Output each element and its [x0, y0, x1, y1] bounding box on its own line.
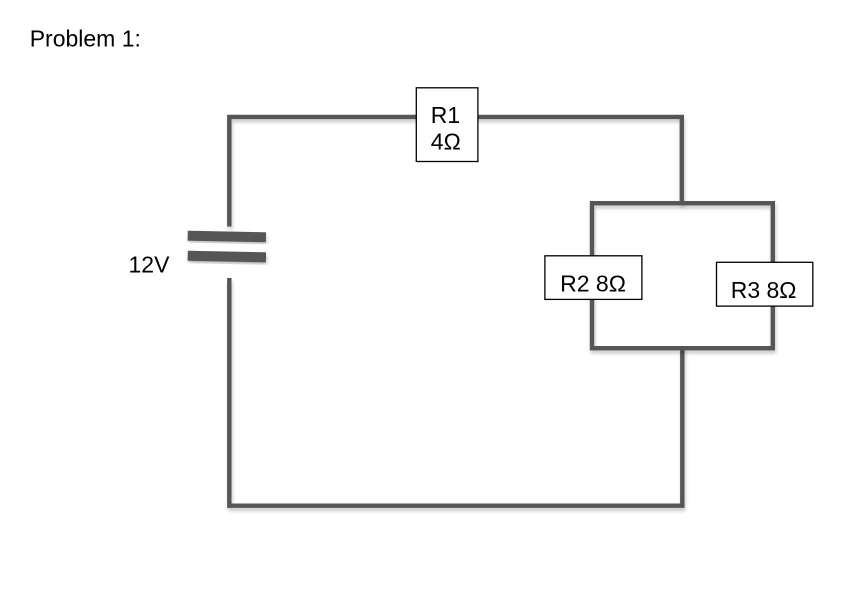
svg-text:R1: R1: [431, 102, 460, 128]
resistor R1 box: [416, 88, 478, 162]
svg-text:12V: 12V: [129, 251, 171, 277]
battery V1 top plate: [188, 231, 266, 243]
svg-text:R2 8Ω: R2 8Ω: [560, 270, 626, 296]
wire: left vertical lower segment + bottom wire + exit vertical: [229, 278, 682, 506]
resistor R3 box: [717, 262, 813, 306]
resistor R2 box: [545, 256, 642, 300]
svg-text:4Ω: 4Ω: [431, 128, 461, 154]
wire: parallel branch rectangle: [592, 203, 773, 348]
svg-text:R3 8Ω: R3 8Ω: [731, 277, 797, 303]
battery V1 bottom plate: [188, 251, 266, 263]
svg-text:Problem 1:: Problem 1:: [30, 26, 141, 52]
wire: left vertical upper segment + top wire + right vertical upper: [229, 117, 682, 227]
